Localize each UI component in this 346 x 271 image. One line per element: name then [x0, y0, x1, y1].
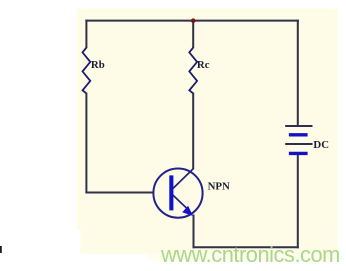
wire: bottom rail [193, 246, 299, 248]
svg-text:Rc: Rc [197, 59, 210, 71]
cropped text fragment at left edge [0, 246, 2, 253]
svg-text:DC: DC [313, 139, 329, 151]
svg-text:NPN: NPN [208, 181, 230, 193]
resistor Rb [83, 48, 91, 94]
wire: emitter down [193, 215, 195, 249]
svg-text:www.cntronics.com: www.cntronics.com [160, 242, 340, 267]
transistor collector stroke [173, 168, 194, 188]
wire: top rail [85, 20, 298, 22]
wire: base horizontal [85, 192, 153, 194]
wire: left rail (Rb to base corner) [85, 93, 87, 194]
wire: right rail (bottom to battery) [297, 153, 299, 248]
wire: collector rail (junction to Rc) [192, 21, 194, 49]
wire: left rail (top of Rb) [85, 20, 87, 49]
node: top junction dot [191, 18, 196, 23]
emitter arrow [182, 206, 193, 216]
transistor emitter stroke [173, 195, 187, 209]
battery DC [285, 126, 312, 153]
resistor Rc [189, 48, 197, 94]
wire: Rc to collector [192, 93, 194, 169]
transistor base bar [169, 175, 173, 210]
transistor Q1 body circle [153, 169, 202, 218]
wire: right rail (battery to top) [297, 20, 299, 126]
svg-text:Rb: Rb [91, 59, 105, 71]
